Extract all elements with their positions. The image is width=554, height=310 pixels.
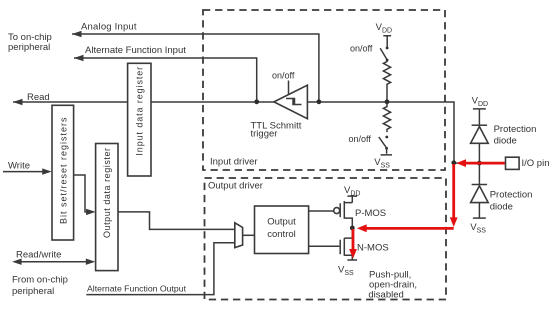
svg-text:Output driver: Output driver [208,180,263,191]
I/O pin square [506,157,520,169]
svg-text:trigger: trigger [251,129,278,140]
wire pin to column [454,162,506,164]
svg-text:Input data register: Input data register [135,66,145,156]
wire red down right column [452,164,455,219]
wire alternate function input [74,58,257,102]
power VSS N-MOS [347,259,357,261]
box Output control [255,206,309,254]
diode D2 protection lower [472,184,488,186]
node pull junction [385,99,390,104]
transistor Q2 N-MOS [340,228,352,260]
node schmitt output junction [254,99,259,104]
transistor Q1 P-MOS [340,201,352,228]
input driver dashed box [203,10,445,170]
svg-text:on/off: on/off [350,44,373,54]
wire output control to P-MOS gate [309,210,334,212]
resistor R1 pull-up [383,60,390,102]
svg-text:P-MOS: P-MOS [355,208,386,219]
output driver dashed box [205,178,447,300]
resistor R2 pull-down [383,102,390,132]
switch SW1 pull-up on/off [386,47,389,50]
svg-text:Input driver: Input driver [210,156,258,167]
wire read line [13,101,274,103]
wire alternate function output [86,243,234,295]
svg-text:Protection: Protection [490,190,533,201]
wire red down through N-MOS [352,229,355,252]
wire output control to N-MOS gate [309,245,340,247]
svg-text:on/off: on/off [349,134,372,144]
node column junction [451,160,456,165]
wire output data register to mux [118,212,235,230]
wire analog input [72,34,319,102]
wire read/write double arrow [18,261,90,263]
svg-text:Read: Read [27,92,50,103]
svg-text:From on-chip: From on-chip [12,275,68,286]
svg-text:Bit set/reset registers: Bit set/reset registers [59,116,69,224]
svg-text:Protection: Protection [494,124,537,135]
svg-text:N-MOS: N-MOS [357,243,389,254]
svg-text:disabled: disabled [368,289,403,300]
switch SW2 pull-down on/off [385,136,388,139]
svg-text:Read/write: Read/write [16,249,61,260]
diode D1 protection upper [472,124,488,126]
node analog junction [317,99,322,104]
wire schmitt input to pin column [307,102,454,163]
svg-text:peripheral: peripheral [8,42,50,53]
node pmos nmos junction [350,226,355,231]
wire red to pmos-nmos node [363,227,454,230]
svg-text:Output: Output [267,217,296,228]
wire bit set/reset to output data register [74,175,89,212]
register box Bit set/reset registers [52,105,74,240]
op-amp U1 TTL Schmitt trigger [274,85,308,119]
wire write [3,171,45,173]
register box Input data register [128,63,151,176]
svg-text:on/off: on/off [272,70,295,80]
node pin junction [477,161,482,166]
svg-text:diode: diode [490,201,513,212]
svg-text:Alternate Function Input: Alternate Function Input [85,45,186,56]
multiplexer [235,223,243,248]
svg-text:peripheral: peripheral [12,286,54,297]
wire red from I/O pin [463,162,505,165]
wire mux to output control [243,234,255,236]
svg-text:Analog Input: Analog Input [81,22,137,33]
power VSS pull-down [381,148,392,155]
svg-text:I/O pin: I/O pin [522,158,550,169]
svg-text:Output data register: Output data register [102,147,112,238]
register box Output data register [96,144,118,271]
svg-text:Write: Write [8,161,30,172]
svg-text:Alternate Function Output: Alternate Function Output [87,283,187,293]
svg-text:control: control [267,229,296,240]
svg-text:diode: diode [494,136,517,147]
